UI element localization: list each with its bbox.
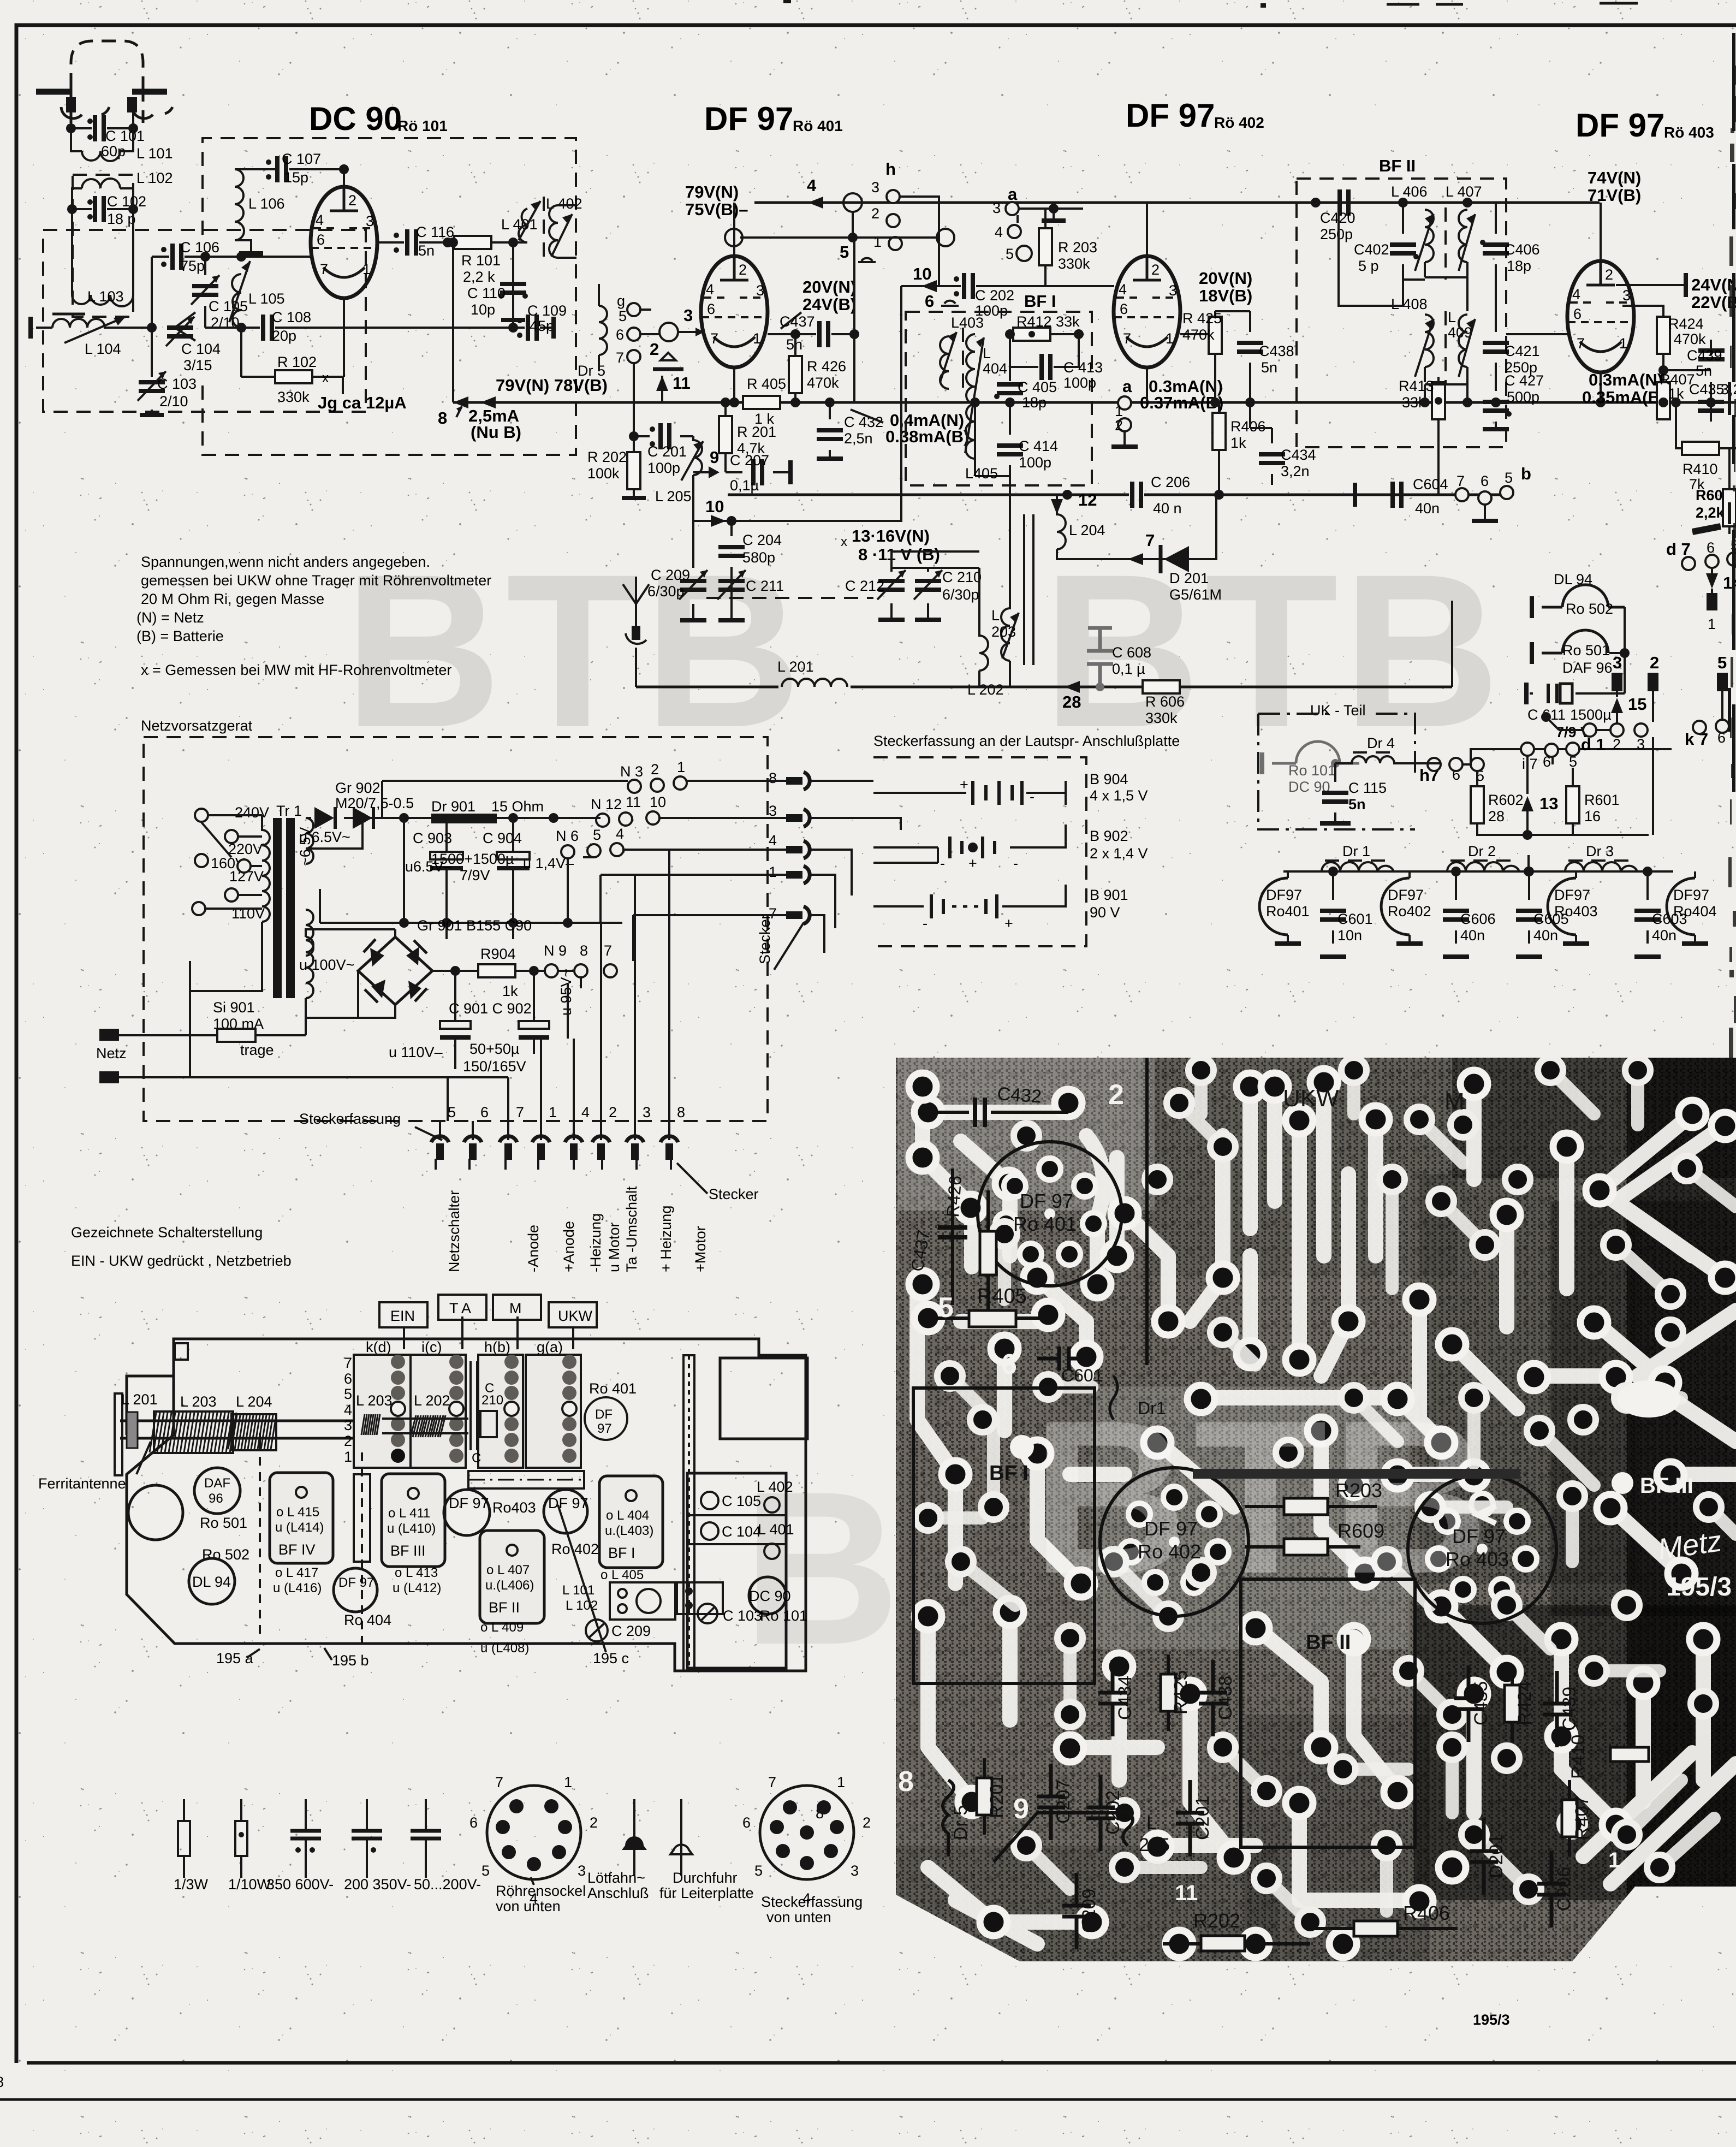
svg-text:b: b [1521,464,1531,483]
resistor R101 [448,241,513,244]
svg-text:C 413: C 413 [1063,359,1103,376]
svg-text:2: 2 [871,205,879,222]
B904 battery [873,781,1066,805]
svg-text:C 427: C 427 [1505,372,1544,389]
svg-text:R904: R904 [480,946,516,962]
svg-text:DF 97: DF 97 [704,100,793,137]
wire [71,112,133,128]
long bar under matrix [468,1471,584,1488]
svg-text:C 101: C 101 [105,128,145,144]
connector sub-box [610,1582,675,1620]
svg-text:R410: R410 [1568,1735,1589,1779]
svg-text:Ro 404: Ro 404 [344,1612,391,1628]
bus D right part with C604 [1355,494,1507,496]
svg-text:u 110V–: u 110V– [389,1044,443,1060]
svg-text:G5/61M: G5/61M [1169,586,1222,603]
svg-text:R406: R406 [1230,418,1266,435]
svg-text:150/165V: 150/165V [463,1058,526,1075]
svg-text:R 201: R 201 [737,424,776,440]
svg-text:C 904: C 904 [483,830,522,846]
svg-text:T A: T A [449,1300,471,1316]
svg-text:i(c): i(c) [421,1339,442,1355]
svg-text:Spannungen,wenn nicht anders: Spannungen,wenn nicht anders angegeben. [141,554,430,570]
svg-text:28: 28 [1062,692,1081,711]
ferrite rod [120,1421,382,1438]
C212 / C210 [890,568,893,620]
svg-text:6: 6 [1481,473,1489,489]
capacitor C432 [829,402,831,459]
coil L101 [71,128,133,151]
svg-text:von unten: von unten [496,1898,561,1914]
svg-text:2,2k: 2,2k [1696,505,1725,521]
svg-text:1/3W: 1/3W [174,1876,209,1893]
svg-text:(B) = Batterie: (B) = Batterie [136,628,224,644]
svg-text:L 104: L 104 [85,341,121,357]
svg-text:a: a [1008,185,1018,204]
svg-text:7: 7 [1456,473,1465,489]
svg-text:200 350V-: 200 350V- [344,1876,411,1893]
svg-text:DF97: DF97 [1388,887,1424,903]
svg-text:7: 7 [516,1104,524,1120]
L203 with dashed core [1023,514,1025,665]
svg-text:DF 97: DF 97 [1144,1517,1198,1540]
capacitor C101 [71,127,133,129]
svg-text:EIN - UKW gedrückt , Netzbetri: EIN - UKW gedrückt , Netzbetrieb [71,1253,292,1269]
Dr1-3 filter chain [1283,870,1673,873]
svg-text:u (L408): u (L408) [480,1641,529,1656]
svg-text:x: x [322,371,329,385]
svg-text:C606: C606 [1460,911,1496,927]
svg-text:N 6: N 6 [556,828,579,844]
svg-text:-: - [1013,855,1018,871]
legend: resistor 1/3W [183,1799,185,1878]
R426/C437 overlay [953,1169,988,1310]
svg-text:470k: 470k [1182,327,1215,343]
svg-text:g: g [617,293,625,309]
Ro101 DC90 socket (gray) [1296,742,1340,763]
svg-text:C 209: C 209 [611,1623,651,1639]
svg-text:-: - [1030,788,1035,805]
svg-text:15: 15 [1628,695,1646,714]
svg-text:C 414: C 414 [1019,438,1058,454]
svg-text:6: 6 [344,1371,352,1387]
C421 [1495,280,1497,384]
svg-text:d 1: d 1 [1581,735,1606,754]
svg-text:N 12: N 12 [591,796,622,812]
wires tube left [306,257,344,394]
svg-text:8: 8 [580,942,588,959]
svg-text:3: 3 [1613,653,1622,672]
svg-text:3: 3 [871,179,879,195]
svg-text:o L 405: o L 405 [601,1568,644,1582]
svg-text:R426: R426 [943,1175,965,1218]
svg-text:Dr 3: Dr 3 [1586,843,1614,859]
svg-text:Ro 402: Ro 402 [1138,1540,1201,1563]
svg-text:Ro403: Ro403 [492,1499,536,1516]
svg-text:5n: 5n [1261,359,1277,376]
svg-text:C206: C206 [1554,1867,1574,1911]
plug row [431,1104,685,1160]
svg-text:6/30p: 6/30p [942,586,979,603]
B902 [873,825,1066,863]
svg-text:DF97: DF97 [1266,887,1302,903]
svg-text:75p: 75p [180,258,205,274]
svg-text:7: 7 [344,1355,352,1371]
svg-text:8: 8 [438,408,447,428]
svg-text:C421: C421 [1505,343,1540,359]
resistor R405 on bus [743,396,780,409]
svg-text:3,2n: 3,2n [1281,463,1310,479]
svg-text:C603: C603 [1652,911,1687,927]
svg-text:1/10W: 1/10W [228,1876,271,1893]
svg-text:L: L [1448,309,1456,325]
svg-text:96: 96 [209,1491,223,1506]
svg-text:o L 409: o L 409 [480,1620,524,1635]
svg-text:o L 413: o L 413 [395,1565,438,1580]
svg-text:470k: 470k [1674,331,1706,347]
svg-text:L 106: L 106 [248,195,285,212]
svg-text:BF IV: BF IV [278,1541,316,1558]
svg-text:C439: C439 [1687,347,1722,364]
svg-text:79V(N): 79V(N) [685,182,739,201]
svg-text:100p: 100p [1063,375,1096,391]
svg-text:Dr 5: Dr 5 [950,1805,971,1840]
svg-text:BF I: BF I [989,1462,1028,1485]
wires in BFII [1339,203,1467,402]
svg-text:Steckerfassung an der Lautspr-: Steckerfassung an der Lautspr- Anschlußp… [873,733,1180,749]
svg-text:u (L410): u (L410) [387,1521,436,1536]
svg-text:DF 97: DF 97 [1452,1525,1506,1547]
svg-text:Rö 101: Rö 101 [397,117,448,134]
svg-text:350 600V-: 350 600V- [266,1876,334,1893]
svg-text:210: 210 [481,1393,503,1408]
svg-text:100p: 100p [1019,454,1051,471]
svg-text:2: 2 [1108,1079,1124,1111]
dashed box oscillator [203,138,576,455]
svg-text:B 902: B 902 [1090,828,1128,844]
svg-text:L 205: L 205 [655,488,692,505]
B901 [873,885,1066,906]
svg-text:3/15: 3/15 [183,357,212,373]
svg-text:7: 7 [1145,531,1155,550]
svg-text:5: 5 [938,1292,954,1324]
svg-text:BF III: BF III [1640,1474,1693,1498]
svg-text:7: 7 [768,1774,776,1790]
right vertical connecting buses [1451,601,1453,687]
svg-text:+: + [960,776,968,793]
svg-text:DF97: DF97 [1673,887,1709,903]
svg-text:DC 90: DC 90 [749,1588,791,1604]
svg-text:Gezeichnete Schalterstellung: Gezeichnete Schalterstellung [71,1224,263,1241]
svg-text:Dr 901: Dr 901 [431,798,475,815]
bottom rules [27,2061,1736,2065]
svg-text:+Anode: +Anode [561,1221,577,1272]
svg-text:2: 2 [651,761,659,778]
dashed box MW section [43,230,366,412]
R203 R609 overlay [1284,1498,1328,1515]
svg-text:0.35mA(B): 0.35mA(B) [1582,388,1666,407]
svg-text:71V(B): 71V(B) [1588,186,1641,205]
legend: loetfahne [633,1799,635,1876]
svg-text:4: 4 [769,832,777,849]
svg-text:40n: 40n [1652,927,1676,944]
dashed link to C212 [706,597,873,599]
svg-text:2: 2 [1650,653,1659,672]
svg-text:UKW: UKW [558,1308,593,1324]
svg-text:x = Gemessen bei MW mit H: x = Gemessen bei MW mit HF-Rohrenvoltmet… [141,662,451,678]
svg-text:13·16V(N): 13·16V(N) [852,526,930,545]
C414 [1009,402,1011,476]
svg-text:BF III: BF III [390,1543,426,1559]
svg-text:L 101: L 101 [562,1583,594,1598]
variable capacitor C103 [151,328,153,412]
svg-text:250p: 250p [1320,226,1353,242]
svg-text:DF 97: DF 97 [1126,97,1215,134]
svg-text:D 201: D 201 [1169,570,1209,586]
svg-text:L403: L403 [951,315,984,331]
svg-text:Ro402: Ro402 [1388,903,1431,920]
svg-text:Dr1: Dr1 [1138,1398,1166,1418]
svg-text:k(d): k(d) [366,1339,391,1355]
svg-text:R424: R424 [1668,316,1704,332]
svg-text:u 6.5V~: u 6.5V~ [299,829,350,845]
svg-text:(N) = Netz: (N) = Netz [136,609,204,626]
svg-text:C 201: C 201 [647,443,687,460]
svg-text:8: 8 [0,2074,4,2090]
svg-text:o L 417: o L 417 [275,1565,318,1580]
svg-text:C 103: C 103 [157,376,197,392]
svg-text:79V(N) 78V(B): 79V(N) 78V(B) [496,376,608,395]
svg-text:C601: C601 [1061,1366,1103,1385]
resistor R602, diode 13, resistor R601 [1477,771,1649,835]
legend: cap 350-600V [305,1799,307,1878]
svg-text:+: + [968,855,977,871]
legend: resistor 1/10W [240,1799,242,1878]
R202/C201/L205 column [634,363,693,436]
svg-text:3: 3 [683,306,693,325]
C206 on bus D [728,494,1507,496]
svg-text:Netzschalter: Netzschalter [446,1190,462,1272]
svg-text:C 901 C 902: C 901 C 902 [449,1000,532,1017]
svg-text:11: 11 [673,373,691,393]
C402 [1402,203,1404,286]
svg-text:2: 2 [1115,417,1123,434]
coil L205 [693,436,702,521]
svg-text:8: 8 [677,1104,685,1120]
svg-text:580p: 580p [742,549,775,566]
L201 bottom bus [636,686,1452,689]
svg-text:5: 5 [1505,470,1513,486]
svg-text:R 426: R 426 [807,358,846,375]
svg-text:L 401: L 401 [758,1521,794,1538]
svg-text:5: 5 [840,242,849,262]
svg-text:1: 1 [837,1774,845,1790]
svg-text:0.3mA(N): 0.3mA(N) [1589,370,1663,389]
svg-text:6: 6 [1707,539,1715,556]
R406 [1218,402,1220,495]
svg-text:C 405: C 405 [1018,379,1057,395]
resistor R102 [241,376,343,378]
capacitor C107 [274,168,344,170]
resistor R426 [794,334,796,402]
svg-text:4: 4 [344,1402,352,1418]
svg-text:1: 1 [873,234,882,250]
svg-text:u Motor: u Motor [606,1222,622,1272]
svg-text:-Anode: -Anode [525,1225,542,1272]
svg-text:100p: 100p [647,460,680,476]
svg-text:10: 10 [705,497,724,516]
bottom rail [320,922,622,924]
svg-text:90 V: 90 V [1090,904,1120,921]
svg-text:BF I: BF I [1024,292,1056,311]
svg-text:für Leiterplatte: für Leiterplatte [659,1885,754,1901]
svg-text:DC 90: DC 90 [309,100,402,137]
svg-text:195/3: 195/3 [1473,2012,1510,2028]
svg-text:g(a): g(a) [537,1339,563,1355]
svg-text:R 102: R 102 [277,354,317,370]
svg-text:1: 1 [549,1104,557,1120]
svg-text:-: - [940,855,945,871]
svg-text:L 201: L 201 [121,1391,158,1408]
svg-text:1: 1 [677,759,685,775]
svg-text:M: M [1444,1088,1465,1115]
svg-text:R 405: R 405 [747,376,786,392]
svg-text:13: 13 [1539,794,1558,813]
svg-text:18p: 18p [1507,258,1531,274]
svg-text:Ro 401: Ro 401 [589,1380,637,1397]
svg-text:5: 5 [1006,246,1014,262]
svg-text:4 x 1,5 V: 4 x 1,5 V [1090,787,1148,804]
svg-text:N 9: N 9 [544,942,567,959]
svg-text:R609: R609 [1337,1520,1384,1542]
svg-text:C605: C605 [1533,911,1569,927]
R424 [1662,306,1664,370]
svg-text:N 3: N 3 [620,763,643,780]
svg-text:L 204: L 204 [236,1393,272,1410]
svg-text:40n: 40n [1415,500,1440,517]
svg-text:BF I: BF I [608,1545,635,1561]
svg-text:2: 2 [650,340,659,359]
legend: steckerfassung socket [760,1786,854,1879]
svg-text:R601: R601 [1584,792,1620,808]
svg-text:u (L414): u (L414) [275,1520,324,1535]
svg-text:L 105: L 105 [248,290,285,307]
svg-text:C439: C439 [1559,1687,1580,1731]
svg-text:C 107: C 107 [282,151,321,167]
svg-text:Gr 902: Gr 902 [335,780,381,796]
svg-text:6: 6 [480,1104,489,1120]
svg-text:C207: C207 [1053,1780,1074,1824]
svg-text:+ Heizung: + Heizung [658,1206,674,1272]
svg-text:240V: 240V [235,804,269,821]
svg-text:DAF 96: DAF 96 [1562,660,1613,676]
svg-text:C 212: C 212 [845,578,884,594]
svg-text:L 204: L 204 [1069,522,1105,538]
svg-text:5n: 5n [418,242,435,259]
capacitor C102 [72,208,133,210]
C438 [1215,311,1250,402]
right white labels [1612,1472,1633,1494]
svg-text:6/30p: 6/30p [647,583,685,600]
svg-text:20V(N): 20V(N) [1199,269,1252,288]
modules BF [270,1473,333,1563]
svg-text:C 103: C 103 [723,1608,762,1624]
svg-text:DF 97: DF 97 [548,1495,588,1511]
svg-text:195 c: 195 c [593,1650,629,1666]
svg-text:DF 97: DF 97 [1576,107,1664,144]
svg-text:2,2 k: 2,2 k [463,269,495,285]
legend: durchfuehrung [680,1799,682,1876]
svg-text:5: 5 [1717,653,1727,672]
svg-text:195 a: 195 a [216,1650,254,1666]
svg-text:1: 1 [769,864,777,880]
svg-text:7: 7 [604,942,612,959]
svg-text:40n: 40n [1533,927,1558,944]
svg-text:3: 3 [1637,736,1645,752]
svg-text:UK - Teil: UK - Teil [1310,702,1366,719]
BF II rect [1241,1579,1415,1847]
svg-text:11: 11 [626,794,641,810]
svg-text:L 203: L 203 [180,1393,217,1410]
svg-text:C435: C435 [1471,1681,1491,1725]
svg-text:Dr 2: Dr 2 [1468,843,1496,859]
svg-text:C434: C434 [1115,1676,1135,1720]
svg-text:Ta -Umschalt: Ta -Umschalt [623,1186,640,1272]
svg-text:1500µ: 1500µ [1570,707,1612,723]
svg-text:o L 404: o L 404 [606,1508,649,1523]
C432 overlay [928,1111,1068,1114]
svg-text:2,5n: 2,5n [844,430,873,447]
svg-text:C 206: C 206 [1151,474,1190,490]
svg-text:3: 3 [992,200,1001,216]
svg-text:L: L [983,345,991,361]
svg-text:203: 203 [991,624,1016,640]
svg-text:C406: C406 [1505,241,1540,258]
long bar [1193,1469,1520,1479]
svg-text:2: 2 [590,1814,598,1831]
svg-text:18V(B): 18V(B) [1199,286,1252,305]
svg-text:Steckerfassung: Steckerfassung [299,1111,401,1127]
svg-text:von unten: von unten [766,1909,831,1925]
svg-text:15p: 15p [284,169,308,186]
svg-text:74V(N): 74V(N) [1588,168,1641,187]
svg-text:R406: R406 [1403,1902,1450,1924]
svg-text:C: C [472,1451,481,1466]
svg-text:C 105: C 105 [722,1493,761,1509]
svg-text:330k: 330k [1145,710,1178,726]
svg-text:3: 3 [643,1104,651,1120]
svg-text:Stecker: Stecker [757,914,773,964]
svg-text:6: 6 [742,1814,751,1831]
svg-text:5: 5 [619,308,627,324]
svg-text:R 425: R 425 [1182,310,1222,327]
svg-text:330k: 330k [1058,256,1090,272]
R410 on bus [1658,398,1668,407]
svg-text:9: 9 [1013,1793,1029,1825]
right edge noise [1729,33,1734,792]
bus E with 10 arrow [693,286,901,521]
svg-text:DAF: DAF [204,1476,230,1491]
svg-text:L 203: L 203 [356,1392,393,1409]
svg-text:2: 2 [863,1814,871,1831]
svg-text:Lötfahn~: Lötfahn~ [587,1870,645,1886]
svg-text:L 407: L 407 [1446,183,1482,200]
svg-text:4: 4 [995,224,1003,240]
BF II dashed box [1297,179,1506,447]
svg-text:1: 1 [1708,616,1716,632]
svg-text:Ro401: Ro401 [1266,903,1310,920]
svg-text:BF II: BF II [1306,1631,1351,1654]
